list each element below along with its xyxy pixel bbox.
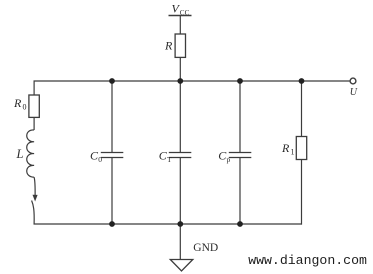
wire C0 branch upper (111, 81, 113, 153)
resistor R1 (296, 137, 306, 160)
capacitor CT (169, 153, 192, 158)
inductor L (27, 130, 34, 177)
wire Cp branch lower (239, 158, 241, 225)
junction top bus / R,CT (177, 78, 183, 84)
resistor R (175, 34, 185, 57)
svg-text:R: R (164, 39, 173, 53)
wire R0 to inductor L (33, 117, 35, 130)
wire L to arrow (34, 177, 35, 196)
wire Cp branch upper (239, 81, 241, 153)
Vcc supply terminal bar (169, 15, 192, 17)
wire CT branch lower (179, 158, 181, 225)
junction top bus / R1 (299, 78, 305, 84)
junction bottom bus / C0 (109, 221, 115, 227)
wire C0 branch lower (111, 158, 113, 225)
svg-text:L: L (16, 147, 24, 161)
junction top bus / Cp (237, 78, 243, 84)
svg-text:1: 1 (291, 148, 295, 157)
wire CT branch upper (179, 81, 181, 153)
svg-text:0: 0 (23, 103, 27, 112)
wire left branch down from top bus (33, 81, 35, 95)
wire Vcc bar to resistor R (179, 16, 181, 35)
wire GND stem (179, 224, 181, 260)
junction bottom bus / Cp (237, 221, 243, 227)
wire top bus (34, 80, 350, 82)
svg-text:p: p (227, 155, 231, 164)
node Vcc label (172, 2, 190, 17)
wire bottom bus (34, 223, 303, 225)
svg-text:U: U (350, 87, 358, 98)
ground symbol (170, 260, 193, 272)
resistor R0 (29, 95, 39, 117)
svg-text:0: 0 (98, 155, 102, 164)
svg-text:R: R (281, 141, 290, 155)
wire R1 branch upper (301, 81, 303, 137)
wire R to top bus (179, 57, 181, 81)
svg-text:T: T (167, 155, 172, 164)
arrowhead on left branch (33, 195, 38, 202)
capacitor C0 (101, 153, 124, 158)
wire arrow to bottom bus (32, 201, 35, 225)
svg-text:GND: GND (193, 242, 218, 254)
svg-text:R: R (13, 96, 22, 110)
svg-text:www.diangon.com: www.diangon.com (248, 253, 367, 268)
junction bottom bus / CT,GND (177, 221, 183, 227)
junction top bus / C0 (109, 78, 115, 84)
output terminal circle (350, 78, 356, 84)
wire R1 branch lower (301, 160, 303, 225)
capacitor Cp (229, 153, 252, 158)
